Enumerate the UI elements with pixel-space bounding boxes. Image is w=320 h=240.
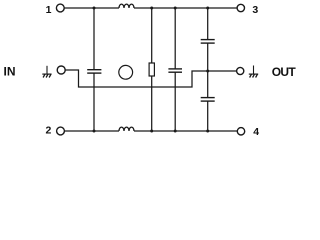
svg-text:1: 1	[46, 4, 52, 16]
svg-text:2: 2	[45, 125, 51, 137]
svg-text:IN: IN	[4, 65, 16, 79]
svg-text:3: 3	[252, 4, 258, 16]
svg-text:4: 4	[253, 126, 259, 138]
svg-text:OUT: OUT	[272, 65, 297, 79]
